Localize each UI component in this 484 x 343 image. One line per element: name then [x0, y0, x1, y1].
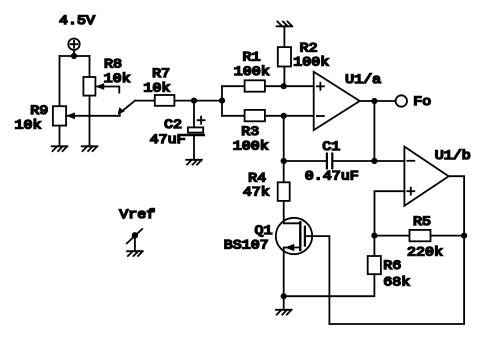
svg-text:100k: 100k [233, 139, 269, 154]
svg-text:0.47uF: 0.47uF [305, 169, 359, 184]
svg-text:R7: R7 [152, 67, 170, 82]
svg-text:R3: R3 [241, 125, 259, 140]
svg-text:100k: 100k [234, 65, 270, 80]
svg-text:100k: 100k [293, 55, 329, 70]
svg-text:R2: R2 [300, 41, 318, 56]
svg-text:Fo: Fo [413, 95, 431, 110]
svg-text:Q1: Q1 [255, 224, 273, 239]
svg-text:47uF: 47uF [150, 133, 186, 148]
svg-text:10k: 10k [104, 72, 131, 87]
svg-text:R5: R5 [413, 215, 431, 230]
svg-text:U1/a: U1/a [345, 73, 381, 88]
svg-text:220k: 220k [407, 245, 443, 260]
svg-text:C1: C1 [322, 140, 340, 155]
svg-text:R9: R9 [30, 104, 48, 119]
svg-text:BS107: BS107 [224, 239, 269, 254]
svg-text:68k: 68k [383, 275, 410, 290]
svg-text:C2: C2 [164, 118, 182, 133]
svg-text:Vref: Vref [119, 208, 155, 223]
svg-text:10k: 10k [143, 81, 170, 96]
svg-text:10k: 10k [15, 119, 42, 134]
svg-text:R4: R4 [248, 171, 266, 186]
svg-text:U1/b: U1/b [435, 149, 471, 164]
svg-text:R1: R1 [243, 50, 261, 65]
svg-text:47k: 47k [243, 185, 270, 200]
svg-text:R8: R8 [104, 57, 122, 72]
svg-text:R6: R6 [383, 259, 401, 274]
svg-text:4.5V: 4.5V [59, 14, 96, 29]
